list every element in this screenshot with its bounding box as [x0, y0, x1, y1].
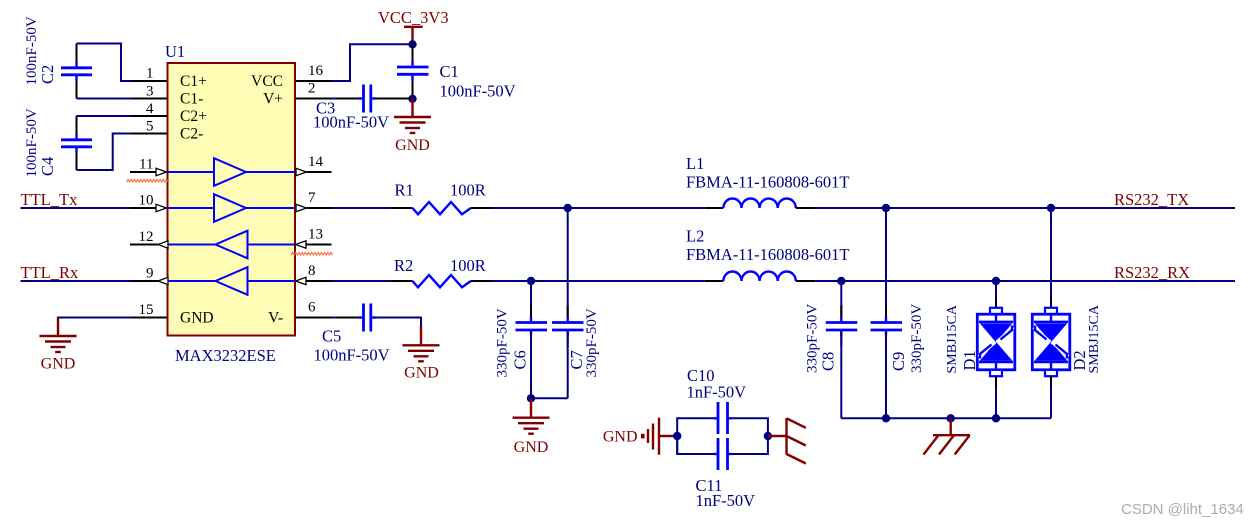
svg-text:C8: C8	[819, 352, 838, 371]
buffer T1 (pins 11-14)	[168, 158, 296, 186]
svg-text:C6: C6	[511, 350, 530, 369]
buffer R1IN (pins 13-12)	[168, 231, 296, 259]
svg-text:D1: D1	[960, 350, 979, 370]
capacitor C11	[714, 438, 732, 470]
node TX-C7 junction	[564, 204, 572, 212]
wire TTL_Tx to pin 10	[21, 207, 132, 209]
svg-text:CSDN @liht_1634: CSDN @liht_1634	[1121, 501, 1244, 518]
pin 1	[130, 66, 167, 82]
ground GND below C1	[394, 99, 431, 154]
svg-text:TTL_Rx: TTL_Rx	[21, 263, 79, 282]
svg-text:R2: R2	[394, 256, 413, 275]
svg-text:C1: C1	[440, 62, 459, 81]
node RX-C6 junction	[527, 277, 535, 285]
wire R2 to L2	[491, 280, 705, 282]
capacitor C5	[336, 304, 396, 332]
node rail-D1 junction	[992, 414, 1000, 422]
svg-text:GND: GND	[404, 365, 439, 382]
buffer T2 (pins 10-7)	[168, 194, 296, 222]
svg-text:U1: U1	[165, 42, 185, 61]
wire C2 top to pin 1	[77, 44, 132, 82]
pin 9	[130, 266, 168, 285]
ground GND below C6 C7	[513, 398, 550, 456]
svg-text:1nF-50V: 1nF-50V	[687, 383, 747, 402]
svg-text:L2: L2	[686, 226, 704, 245]
ground GND at pin 15	[40, 318, 77, 373]
capacitor C9 branch wire from TX row	[871, 208, 903, 418]
node C10-C11 right junction	[764, 432, 772, 440]
svg-text:100R: 100R	[450, 256, 486, 275]
svg-text:GND: GND	[603, 429, 638, 446]
svg-text:7: 7	[308, 190, 316, 206]
earth ground right of C10 C11	[768, 418, 806, 464]
svg-text:C2+: C2+	[180, 108, 207, 125]
svg-text:13: 13	[308, 227, 323, 243]
capacitor C4	[61, 116, 92, 170]
wire pin 8 to R2	[332, 280, 392, 282]
pin 10	[130, 193, 167, 212]
svg-text:330pF-50V: 330pF-50V	[909, 304, 925, 373]
svg-text:SMBJ15CA: SMBJ15CA	[945, 304, 960, 373]
pin 6	[296, 300, 332, 318]
svg-text:SMBJ15CA: SMBJ15CA	[1087, 304, 1102, 373]
svg-text:14: 14	[308, 154, 324, 170]
pin 14	[296, 154, 332, 176]
svg-text:TTL_Tx: TTL_Tx	[21, 190, 79, 209]
wire C11 to right junction	[731, 436, 768, 454]
node rail-C9 junction	[882, 414, 890, 422]
ground GND power port left of C10	[603, 418, 677, 455]
svg-text:GND: GND	[514, 439, 549, 456]
svg-text:RS232_RX: RS232_RX	[1114, 263, 1190, 282]
svg-text:330pF-50V: 330pF-50V	[584, 308, 600, 377]
wire L1 to RS232_TX	[816, 207, 1235, 209]
pin 4	[130, 101, 167, 117]
wire C10 to right junction	[731, 418, 768, 436]
wire TTL_Rx to pin 9	[21, 280, 132, 282]
resistor R1	[392, 202, 492, 214]
svg-text:R1: R1	[395, 181, 414, 200]
svg-text:C1-: C1-	[180, 91, 203, 108]
transient diode D2	[1032, 208, 1070, 418]
svg-text:C2-: C2-	[180, 126, 203, 143]
svg-text:16: 16	[308, 63, 324, 79]
svg-text:12: 12	[139, 229, 154, 245]
buffer R2IN (pins 8-9)	[168, 267, 296, 295]
resistor R2	[392, 275, 492, 287]
pin 5	[130, 119, 167, 135]
pin 15	[130, 302, 167, 318]
svg-text:10: 10	[139, 193, 154, 209]
capacitor C8 branch wire from RX row	[826, 281, 858, 418]
svg-text:C4: C4	[38, 157, 57, 176]
node RX-C8 junction	[837, 277, 845, 285]
svg-text:1nF-50V: 1nF-50V	[696, 491, 756, 510]
svg-text:4: 4	[146, 101, 154, 117]
pin 3	[130, 84, 167, 100]
svg-text:MAX3232ESE: MAX3232ESE	[175, 346, 276, 365]
pin 16	[296, 63, 332, 81]
svg-text:8: 8	[308, 263, 316, 279]
svg-text:C2: C2	[38, 65, 57, 84]
svg-text:330pF-50V: 330pF-50V	[495, 308, 511, 377]
pin 7	[296, 190, 332, 212]
svg-text:GND: GND	[41, 356, 76, 373]
wire C2 bottom to pin 3	[77, 98, 132, 100]
svg-text:VCC_3V3: VCC_3V3	[378, 8, 449, 27]
wire pin 6 to C5	[332, 317, 360, 319]
wire R1 to L1	[491, 207, 705, 209]
pin 13	[296, 227, 332, 249]
svg-text:1: 1	[146, 66, 154, 82]
svg-text:FBMA-11-160808-601T: FBMA-11-160808-601T	[686, 172, 849, 191]
svg-text:5: 5	[146, 119, 154, 135]
node RX-D1 junction	[992, 277, 1000, 285]
power port VCC_3V3	[378, 8, 449, 45]
node TX-D2 junction	[1047, 204, 1055, 212]
capacitor C10	[714, 402, 732, 434]
svg-text:V+: V+	[263, 91, 283, 108]
svg-text:15: 15	[139, 302, 154, 318]
svg-text:C1+: C1+	[180, 73, 207, 90]
pin 2	[296, 81, 332, 99]
no-ERC squiggle pin 13	[291, 252, 333, 255]
svg-text:100nF-50V: 100nF-50V	[313, 113, 389, 132]
svg-text:GND: GND	[395, 137, 430, 154]
svg-text:V-: V-	[268, 310, 283, 327]
svg-text:FBMA-11-160808-601T: FBMA-11-160808-601T	[686, 245, 849, 264]
wire C7 bottom to C6 bottom	[531, 397, 568, 399]
pin 11	[130, 157, 167, 176]
svg-text:GND: GND	[180, 310, 214, 327]
capacitor C7 branch wire from TX row	[552, 208, 584, 398]
wire L2 to RS232_RX	[816, 280, 1235, 282]
pin 12	[130, 229, 168, 248]
inductor L1	[705, 199, 816, 209]
wire pin 7 to R1	[332, 207, 392, 209]
wire C4 bottom to pin 5	[77, 134, 132, 171]
transient diode D1	[977, 281, 1015, 418]
node rail-ground junction	[947, 414, 955, 422]
node C6-C7 ground junction	[527, 394, 535, 402]
wire C10 loop top branch	[677, 418, 714, 454]
wire C3 to VCC node	[376, 98, 413, 100]
wire C11 loop bottom branch	[677, 436, 714, 454]
capacitor C1	[397, 44, 429, 99]
svg-text:2: 2	[308, 81, 316, 97]
wire pin 16 to VCC rail	[332, 44, 413, 81]
wire pin 15 to ground	[58, 318, 131, 320]
capacitor C3	[336, 85, 409, 113]
inductor L2	[705, 272, 816, 282]
svg-text:100R: 100R	[450, 181, 486, 200]
wire C5 to ground	[376, 318, 421, 329]
op-amp U1 MAX3232ESE body	[168, 63, 296, 336]
svg-text:C5: C5	[322, 327, 341, 346]
wire ground rail C8 to D2	[841, 417, 1051, 419]
svg-text:100nF-50V: 100nF-50V	[314, 346, 390, 365]
node C10-C11 left junction	[673, 432, 681, 440]
capacitor C2	[61, 44, 92, 99]
svg-text:11: 11	[139, 157, 153, 173]
capacitor C6 branch wire from RX row	[516, 281, 548, 398]
node VCC junction top	[408, 40, 416, 48]
wire C4 top to pin 4	[77, 115, 132, 117]
ground GND below C5	[403, 326, 440, 382]
svg-text:RS232_TX: RS232_TX	[1114, 190, 1189, 209]
svg-text:100nF-50V: 100nF-50V	[440, 82, 516, 101]
svg-text:9: 9	[146, 266, 154, 282]
svg-text:3: 3	[146, 84, 154, 100]
wire pin 2 to C3	[332, 98, 360, 100]
no-ERC squiggle pin 11	[127, 179, 169, 182]
earth ground below rail	[924, 418, 971, 454]
svg-text:C9: C9	[889, 352, 908, 371]
node VCC junction bottom	[408, 95, 416, 103]
svg-text:L1: L1	[686, 154, 704, 173]
pin 8	[296, 263, 332, 285]
node TX-C9 junction	[882, 204, 890, 212]
svg-text:6: 6	[308, 300, 316, 316]
svg-text:VCC: VCC	[251, 73, 283, 90]
